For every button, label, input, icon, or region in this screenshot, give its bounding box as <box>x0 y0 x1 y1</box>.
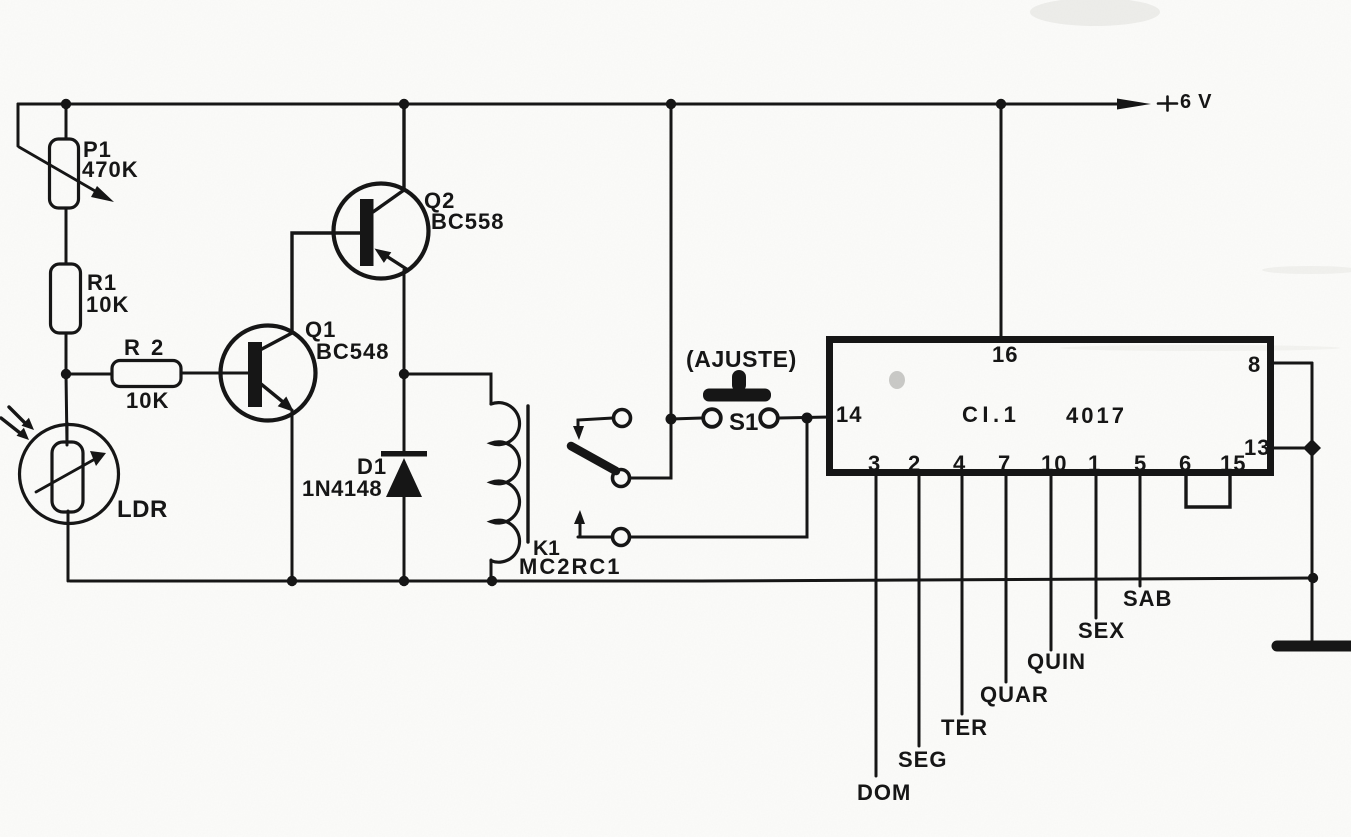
svg-text:(AJUSTE): (AJUSTE) <box>686 346 797 372</box>
node: rail / P1 junction <box>61 99 71 109</box>
wire: R2 right to Q1 base <box>181 372 248 375</box>
svg-text:10K: 10K <box>86 292 129 317</box>
ground symbol bar <box>1277 641 1351 652</box>
svg-text:5: 5 <box>1134 451 1147 476</box>
wire: S1 node to left terminal <box>671 418 702 419</box>
svg-text:2: 2 <box>908 451 921 476</box>
svg-text:16: 16 <box>992 342 1018 367</box>
wire: lower contact to pin14 node <box>630 419 807 537</box>
wire: LDR bottom to ground rail corner <box>67 511 70 581</box>
node: Q2 collector / D1 / K1 junction <box>399 369 409 379</box>
relay K1 core bar <box>526 406 529 542</box>
wire: IC pin 4 to TER <box>961 476 964 714</box>
svg-text:QUAR: QUAR <box>980 682 1049 707</box>
transistor Q1 collector lead <box>260 233 360 350</box>
pushbutton S1 right terminal <box>760 409 778 427</box>
potentiometer P1 body <box>50 139 79 208</box>
node: S1 / relay lower contact / pin14 junction <box>802 413 813 424</box>
potentiometer P1 wiper arrow <box>19 147 102 195</box>
node: rail / K1 bottom <box>487 576 497 586</box>
relay contact: lower fixed contact with up arrow <box>613 529 630 546</box>
svg-text:BC558: BC558 <box>431 209 504 234</box>
svg-text:S1: S1 <box>729 409 758 436</box>
relay contact: top fixed contact <box>614 410 631 427</box>
transistor Q2 collector lead with arrow to base <box>380 252 408 270</box>
relay contact: common moving contact <box>613 470 630 487</box>
+6V supply rail wire <box>18 103 1126 106</box>
diode D1 triangle <box>386 458 422 497</box>
wire: pin8/pin13 tie down to ground <box>1311 363 1314 646</box>
wire: IC pin 10 to QUIN <box>1050 476 1053 650</box>
svg-text:10: 10 <box>1041 451 1067 476</box>
LDR element body <box>52 442 83 512</box>
svg-text:TER: TER <box>941 715 988 740</box>
node: rail / Q1 emitter <box>287 576 297 586</box>
node: rail / ground lead junction <box>1308 573 1318 583</box>
+6V arrowhead <box>1117 99 1151 110</box>
svg-text:BC548: BC548 <box>316 339 389 364</box>
wire: P1 bottom to R1 top <box>65 208 68 264</box>
node: rail / relay-S1 branch junction <box>666 99 676 109</box>
diode D1 cathode bar <box>381 451 427 457</box>
LDR circle <box>20 425 119 524</box>
pushbutton S1 left terminal <box>703 409 721 427</box>
wire: rail branch down to S1 node <box>670 104 673 419</box>
wire: rail left end down to P1 wiper <box>17 104 20 146</box>
pushbutton S1 actuator stem <box>732 370 746 392</box>
svg-text:14: 14 <box>836 402 862 427</box>
wire: IC pin 5 to SAB <box>1139 476 1142 586</box>
wire: rail to P1 top <box>65 104 68 139</box>
svg-text:QUIN: QUIN <box>1027 649 1086 674</box>
svg-text:13: 13 <box>1244 435 1270 460</box>
wire: IC pin 7 to QUAR <box>1005 476 1008 682</box>
wire: coil bottom to rail <box>490 560 493 581</box>
svg-text:15: 15 <box>1220 451 1246 476</box>
transistor Q2 circle <box>334 184 429 279</box>
wire: IC pin 3 to DOM <box>875 476 878 776</box>
+6V plus sign <box>1158 97 1177 111</box>
svg-text:MC2RC1: MC2RC1 <box>519 554 621 579</box>
wire: IC pin 8 lead <box>1274 362 1312 365</box>
wire: D1 cathode lead <box>403 374 406 452</box>
svg-text:10K: 10K <box>126 388 169 413</box>
relay contact: top contact lead with down arrow <box>578 418 613 428</box>
wire: IC pin 13 lead <box>1274 447 1312 450</box>
wire: IC pin 1 to SEX <box>1095 476 1098 618</box>
wire: S1 right terminal to IC pin 14 <box>779 417 830 418</box>
svg-text:6: 6 <box>1179 451 1192 476</box>
wire: IC pin 6 to pin 15 jumper <box>1186 476 1230 507</box>
relay K1 coil <box>491 403 520 563</box>
svg-text:7: 7 <box>998 451 1011 476</box>
svg-text:8: 8 <box>1248 352 1261 377</box>
wire: Q1 emitter down to rail <box>291 410 294 581</box>
svg-text:R 2: R 2 <box>124 335 166 360</box>
svg-text:3: 3 <box>868 451 881 476</box>
svg-text:4017: 4017 <box>1066 403 1127 428</box>
svg-text:470K: 470K <box>82 157 139 182</box>
relay lever arm <box>571 446 616 471</box>
svg-text:SAB: SAB <box>1123 586 1172 611</box>
wire: moving contact to S1 branch <box>630 419 671 478</box>
wire: D1 anode to rail <box>403 494 406 581</box>
transistor Q1 circle <box>221 326 316 421</box>
svg-text:LDR: LDR <box>117 496 168 523</box>
LDR variability arrow <box>36 459 95 492</box>
IC CI.1 4017 body <box>830 340 1271 473</box>
resistor R2 body <box>112 361 181 387</box>
wire: junction to R2 left <box>66 373 112 376</box>
LDR light arrow 2 <box>1 418 20 433</box>
node: R1 / R2 / LDR junction <box>61 369 71 379</box>
svg-text:6V: 6V <box>1180 91 1218 113</box>
svg-text:DOM: DOM <box>857 780 911 805</box>
pushbutton S1 actuator bar <box>703 389 771 402</box>
resistor R1 body <box>51 264 81 333</box>
node: rail / IC pin16 junction <box>996 99 1006 109</box>
node: relay common / S1 junction <box>666 414 677 425</box>
node: rail / D1 anode <box>399 576 409 586</box>
svg-text:SEX: SEX <box>1078 618 1125 643</box>
transistor Q1 base bar <box>248 342 262 407</box>
transistor Q2 emitter lead (to +6V) <box>373 104 404 212</box>
wire: IC pin 16 to +6V rail <box>1000 104 1003 336</box>
svg-text:1: 1 <box>1088 451 1101 476</box>
node: pin13 diamond junction <box>1303 439 1321 457</box>
svg-text:4: 4 <box>953 451 966 476</box>
wire: Q2 collector down to D1/K1 node <box>403 270 406 374</box>
svg-text:CI.1: CI.1 <box>962 402 1020 427</box>
wire: R1 bottom to LDR top <box>66 333 67 445</box>
svg-text:1N4148: 1N4148 <box>302 476 382 501</box>
LDR light arrow 1 <box>9 407 25 423</box>
wire: node to relay coil top <box>404 374 491 404</box>
wire: IC pin 2 to SEG <box>918 476 921 746</box>
wire: into LDR element top <box>66 423 69 444</box>
ground/0V bottom rail wire <box>70 578 1313 581</box>
transistor Q1 emitter lead with arrow <box>261 384 283 402</box>
transistor Q2 base bar <box>360 199 374 266</box>
node: rail / Q2 emitter junction <box>399 99 409 109</box>
svg-text:SEG: SEG <box>898 747 947 772</box>
